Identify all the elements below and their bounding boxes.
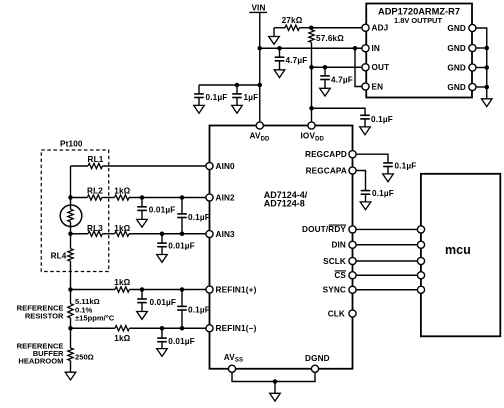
- pin AIN2: [206, 193, 235, 202]
- junction RL3 rail: [68, 232, 73, 237]
- pin AIN0: [206, 162, 235, 171]
- wire SYNC to mcu: [356, 289, 418, 291]
- ground under 0.01uF REFIN+: [137, 312, 148, 320]
- wire AVDD rail: [199, 84, 260, 86]
- pin ADJ: [362, 24, 388, 33]
- svg-text:4.7µF: 4.7µF: [286, 56, 308, 65]
- svg-text:GND: GND: [447, 63, 466, 72]
- junction AIN3 cap tap: [160, 232, 165, 237]
- pin IN: [362, 44, 380, 53]
- resistor 1kOhm AIN2: [114, 187, 206, 201]
- node ADJ divider junction: [309, 26, 314, 31]
- resistor 1kOhm REFIN-: [71, 326, 207, 343]
- svg-text:OUT: OUT: [372, 63, 390, 72]
- svg-text:SCLK: SCLK: [323, 257, 346, 266]
- svg-text:0.1µF: 0.1µF: [371, 115, 393, 124]
- svg-text:RL4: RL4: [51, 252, 67, 261]
- pin GND2: [447, 44, 476, 53]
- capacitor 0.01uF REFIN+: [137, 290, 176, 312]
- wire AVSS-DGND ground link: [232, 372, 315, 381]
- wire GND bus: [476, 28, 487, 99]
- resistor 1kOhm REFIN+: [71, 278, 207, 292]
- junction VIN/IN: [258, 46, 263, 51]
- svg-text:REGCAPD: REGCAPD: [305, 150, 347, 159]
- wire left rail: [70, 166, 72, 372]
- ground under REGCAPA cap: [360, 202, 371, 210]
- svg-text:1kΩ: 1kΩ: [114, 278, 130, 287]
- wire SCLK to mcu: [356, 260, 418, 262]
- resistor 27kOhm: [274, 16, 311, 36]
- ground under 4.7uF output: [320, 88, 331, 96]
- svg-text:AIN2: AIN2: [216, 193, 236, 202]
- capacitor 0.1uF IOVDD: [360, 115, 393, 127]
- pin GND1: [447, 24, 476, 33]
- svg-text:0.01µF: 0.01µF: [150, 298, 177, 307]
- pin AVSS: [224, 353, 243, 372]
- svg-text:RL1: RL1: [88, 155, 104, 164]
- resistor RL2: [71, 187, 115, 201]
- resistor 57.6kOhm: [309, 28, 344, 123]
- ground under 0.01uF REFIN-: [157, 349, 168, 357]
- resistor RL3: [71, 224, 115, 236]
- svg-text:0.1µF: 0.1µF: [372, 189, 394, 198]
- resistor RL1: [71, 155, 207, 169]
- pin REGCAPA: [306, 166, 356, 175]
- junction GND4: [485, 85, 490, 90]
- wire EN tie down: [355, 48, 362, 86]
- wire DIN to mcu: [356, 244, 418, 246]
- wire CS to mcu: [356, 274, 418, 276]
- resistor 250Ohm headroom: [68, 348, 94, 362]
- pin SCLK: [323, 257, 356, 266]
- svg-text:0.01µF: 0.01µF: [168, 242, 195, 251]
- junction AIN2 0.1uF tap: [180, 195, 185, 200]
- wire REGCAPA branch: [356, 171, 366, 191]
- regulator U2 ADP1720ARMZ-R7: [366, 4, 472, 98]
- junction REFIN+ rail: [68, 287, 73, 292]
- junction RL2 rail: [68, 195, 73, 200]
- ground under 0.1uF IOVDD: [360, 127, 371, 135]
- capacitor 4.7uF input: [275, 48, 308, 70]
- svg-text:IN: IN: [372, 44, 381, 53]
- pin IOVDD: [301, 122, 325, 142]
- ground under 0.01uF AIN3: [157, 255, 168, 263]
- pin SYNC: [323, 286, 356, 295]
- pin mcu 1: [417, 226, 424, 233]
- sensor Pt100 dashed box: [41, 140, 109, 272]
- junction OUT cap tap: [323, 65, 328, 70]
- ground under 0.1uF AVDD: [194, 105, 205, 113]
- wire to ADJ pin: [311, 27, 362, 29]
- svg-text:DIN: DIN: [331, 241, 346, 250]
- svg-text:250Ω: 250Ω: [75, 353, 94, 362]
- wire ground stem: [274, 382, 276, 394]
- pin DIN: [331, 241, 356, 250]
- pin mcu 4: [417, 272, 424, 279]
- junction REFIN- cap tap: [160, 326, 165, 331]
- svg-text:REGCAPA: REGCAPA: [306, 166, 347, 175]
- label REFERENCE BUFFER HEADROOM: [17, 342, 64, 366]
- junction AIN2 cap tap: [140, 195, 145, 200]
- junction OUT/57.6k: [309, 65, 314, 70]
- svg-text:0.1µF: 0.1µF: [395, 161, 417, 170]
- ground under REGCAPD cap: [383, 174, 394, 182]
- ground under 4.7uF input: [274, 70, 285, 78]
- svg-text:REFIN1(+): REFIN1(+): [216, 285, 257, 294]
- svg-text:AIN0: AIN0: [216, 162, 236, 171]
- capacitor 1uF AVDD: [232, 85, 258, 105]
- junction GND2: [485, 46, 490, 51]
- wire DOUT to mcu: [356, 228, 418, 230]
- svg-text:1µF: 1µF: [244, 93, 259, 102]
- wire VIN vertical to AVDD: [259, 12, 261, 122]
- svg-text:IOVDD: IOVDD: [301, 132, 325, 143]
- junction GND3: [485, 65, 490, 70]
- svg-text:EN: EN: [372, 82, 384, 91]
- pin CS: [334, 271, 356, 280]
- capacitor 0.01uF REFIN-: [157, 328, 195, 348]
- resistor 5.11kOhm reference: [68, 297, 115, 322]
- svg-text:27kΩ: 27kΩ: [282, 16, 303, 25]
- pin mcu 3: [417, 257, 424, 264]
- pin AVDD: [250, 122, 271, 142]
- svg-text:57.6kΩ: 57.6kΩ: [316, 34, 344, 43]
- svg-text:Pt100: Pt100: [60, 140, 83, 149]
- ground under 0.01uF AIN2: [137, 219, 148, 227]
- svg-text:0.1µF: 0.1µF: [206, 93, 228, 102]
- pin OUT: [362, 63, 389, 72]
- junction EN tie: [353, 46, 358, 51]
- svg-text:CLK: CLK: [328, 309, 345, 318]
- svg-text:±15ppm/°C: ±15ppm/°C: [75, 313, 115, 322]
- svg-text:0.1µF: 0.1µF: [188, 213, 210, 222]
- svg-text:HEADROOM: HEADROOM: [18, 356, 63, 365]
- pin DOUT/RDY: [302, 225, 356, 234]
- ground left rail: [65, 372, 76, 380]
- wire IN line from VIN: [260, 47, 362, 49]
- pin REFIN1(-): [206, 324, 257, 333]
- junction REFIN+ cap tap: [140, 287, 145, 292]
- svg-text:AVSS: AVSS: [224, 353, 243, 364]
- junction ground link: [273, 379, 278, 384]
- pin GND3: [447, 63, 476, 72]
- pin AIN3: [206, 230, 235, 239]
- pin EN: [362, 82, 383, 91]
- wire IOVDD decoupling branch: [312, 108, 366, 115]
- svg-text:GND: GND: [447, 24, 466, 33]
- label REFERENCE RESISTOR: [17, 304, 64, 321]
- wire REGCAPD branch: [356, 154, 388, 163]
- capacitor 0.1uF AVDD: [194, 85, 227, 105]
- svg-text:1kΩ: 1kΩ: [114, 187, 130, 196]
- ground under 1uF AVDD: [232, 105, 243, 113]
- svg-text:1kΩ: 1kΩ: [114, 334, 130, 343]
- svg-text:CS: CS: [334, 271, 346, 280]
- svg-text:DOUT/RDY: DOUT/RDY: [302, 225, 346, 234]
- pin DGND: [305, 354, 330, 372]
- ground chip: [270, 393, 281, 401]
- capacitor 0.1uF REGCAPD: [383, 161, 416, 174]
- resistor RL4: [51, 249, 74, 262]
- pin mcu 5: [417, 286, 424, 293]
- svg-text:DGND: DGND: [305, 354, 330, 363]
- pin REGCAPD: [305, 150, 356, 159]
- wire OUT line: [312, 66, 363, 68]
- capacitor 0.01uF AIN2: [137, 198, 175, 220]
- junction AIN3 0.1uF tap: [180, 232, 185, 237]
- junction IOVDD branch: [309, 106, 314, 111]
- junction 4.7uF tap: [277, 46, 282, 51]
- ground under 27kOhm: [269, 37, 280, 45]
- resistor 1kOhm AIN3: [114, 224, 206, 236]
- svg-text:GND: GND: [447, 83, 466, 92]
- power VIN: [249, 4, 267, 13]
- svg-text:AVDD: AVDD: [250, 132, 271, 143]
- svg-text:VIN: VIN: [251, 4, 265, 13]
- svg-text:0.01µF: 0.01µF: [149, 205, 176, 214]
- pin CLK: [328, 309, 356, 318]
- svg-text:mcu: mcu: [445, 243, 471, 257]
- junction REFIN- 0.1uF tap: [180, 326, 185, 331]
- svg-text:0.01µF: 0.01µF: [168, 337, 195, 346]
- RTD element: [60, 205, 82, 227]
- capacitor 0.01uF AIN3: [157, 234, 195, 255]
- svg-text:RL2: RL2: [87, 187, 103, 196]
- svg-text:AIN3: AIN3: [216, 230, 236, 239]
- junction REFIN- rail: [68, 326, 73, 331]
- junction AVDD/VIN: [258, 83, 263, 88]
- pin mcu 2: [417, 241, 424, 248]
- svg-text:4.7µF: 4.7µF: [331, 75, 353, 84]
- capacitor 0.1uF REGCAPA: [361, 189, 394, 202]
- capacitor 4.7uF output: [320, 67, 353, 88]
- svg-text:GND: GND: [447, 44, 466, 53]
- svg-text:SYNC: SYNC: [323, 286, 346, 295]
- pin GND4: [447, 83, 476, 92]
- capacitor 0.1uF AIN2-AIN3: [177, 198, 210, 234]
- junction REFIN+ 0.1uF tap: [180, 287, 185, 292]
- svg-text:AD7124-8: AD7124-8: [264, 199, 305, 209]
- junction 1uF tap: [235, 83, 240, 88]
- svg-text:ADJ: ADJ: [372, 24, 389, 33]
- svg-text:REFIN1(−): REFIN1(−): [216, 324, 257, 333]
- mcu box: [421, 174, 500, 336]
- pin REFIN1(+): [206, 285, 257, 294]
- svg-text:0.1µF: 0.1µF: [188, 305, 210, 314]
- svg-text:1.8V OUTPUT: 1.8V OUTPUT: [394, 16, 443, 25]
- ground regulator: [481, 99, 492, 107]
- capacitor 0.1uF REFIN: [177, 290, 210, 329]
- svg-text:RESISTOR: RESISTOR: [25, 312, 64, 321]
- ADC U1 AD7124-4/AD7124-8: [210, 126, 353, 369]
